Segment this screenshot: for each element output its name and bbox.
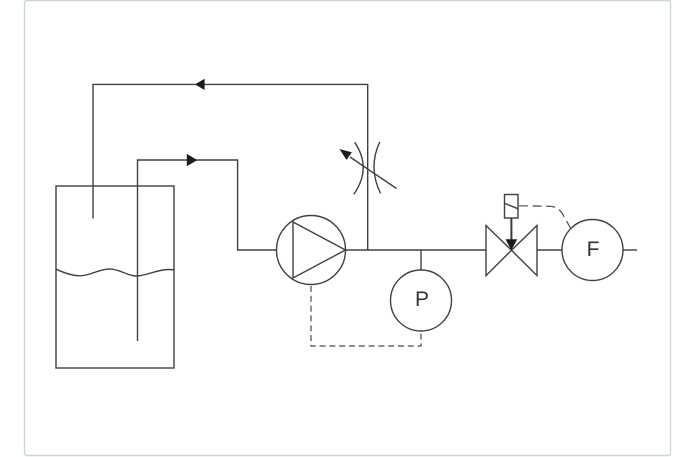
svg-text:P: P [415, 288, 429, 311]
svg-text:F: F [587, 238, 600, 261]
